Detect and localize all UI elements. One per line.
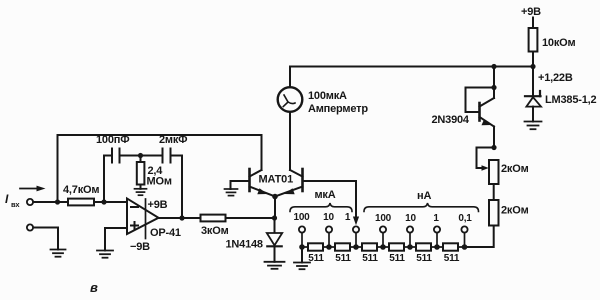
transistor Q3 2N3904	[432, 98, 495, 127]
current direction arrow	[20, 186, 46, 192]
op-amp U1 OP-41	[127, 199, 181, 240]
trimmer R5 2кОм	[489, 160, 529, 184]
wire Q3 collector-base loop	[466, 88, 495, 113]
wire ladder left to ground	[301, 247, 303, 263]
wire R1 to node B	[94, 201, 127, 203]
node I junction dot	[491, 85, 496, 90]
svg-text:вх: вх	[11, 200, 20, 209]
svg-text:Амперметр: Амперметр	[308, 103, 368, 115]
resistor R4 10кОм	[529, 28, 576, 52]
ground G7	[294, 263, 310, 270]
input terminal 1	[27, 199, 33, 205]
node D junction dot	[179, 215, 184, 220]
wire R3 to node E	[226, 217, 275, 219]
resistor R2 2,4МОм	[137, 162, 172, 188]
range labels	[293, 212, 472, 224]
input terminal 2	[27, 224, 33, 230]
resistor R3 3кОм	[201, 215, 229, 237]
svg-text:100мкА: 100мкА	[308, 90, 347, 102]
svg-text:10: 10	[323, 212, 334, 223]
node E junction dot	[272, 215, 277, 220]
wire node G down to Q3	[493, 67, 495, 99]
wire +9В to R4	[532, 18, 534, 29]
svg-text:2N3904: 2N3904	[432, 114, 470, 126]
wire terminal1 to node A	[33, 201, 57, 203]
wire Q1 base to ground	[231, 181, 250, 189]
wire op-amp output	[159, 217, 201, 219]
svg-text:100: 100	[293, 212, 310, 223]
svg-text:511: 511	[416, 253, 432, 264]
wire node C to C2	[141, 155, 163, 157]
svg-text:100: 100	[375, 213, 392, 224]
svg-text:0,1: 0,1	[458, 213, 472, 224]
wire node H to VD1	[532, 67, 534, 97]
trimmer R5 wiper loop	[477, 148, 495, 169]
svg-text:+9В: +9В	[148, 199, 168, 211]
svg-text:2кОм: 2кОм	[501, 163, 529, 175]
ladder junction dots	[299, 244, 467, 250]
wire feedback top line	[58, 134, 262, 136]
node J junction dot	[491, 145, 496, 150]
transistor Q2 MAT01 right half	[275, 169, 303, 197]
wire terminal2 to ground	[33, 228, 58, 250]
wire node C to R2	[140, 156, 142, 163]
svg-text:в: в	[90, 280, 98, 295]
wire R2 to ground	[140, 185, 142, 189]
wire noninverting input to ground	[105, 228, 127, 251]
op-amp power pins +9В -9В	[130, 199, 168, 253]
node A junction dot	[55, 199, 60, 204]
svg-text:I: I	[5, 192, 9, 206]
wire node A to R1	[58, 201, 69, 203]
ground G5	[225, 189, 238, 196]
wire Q3 emitter down to node J	[493, 127, 495, 148]
wire R5 to R6	[493, 184, 495, 200]
terminal stubs to ladder	[302, 233, 465, 247]
resistor R1 4,7кОм	[63, 184, 99, 205]
svg-text:10: 10	[405, 213, 416, 224]
svg-text:511: 511	[362, 253, 378, 264]
node F emitter junction dot	[272, 194, 278, 200]
ground G1	[51, 250, 66, 257]
svg-text:4,7кОм: 4,7кОм	[63, 184, 99, 196]
range terminal circles	[299, 226, 468, 232]
capacitor C1 100пФ	[96, 134, 129, 163]
resistor R6 2кОм	[489, 200, 529, 226]
wire Q2 base to range wiper	[303, 181, 357, 218]
label ammeter	[308, 90, 368, 115]
brace мкА	[290, 203, 352, 212]
brace нА	[364, 203, 479, 212]
node Iвх input label	[5, 192, 20, 209]
svg-text:100пФ: 100пФ	[96, 134, 129, 146]
wire D1 to ground	[274, 246, 276, 261]
svg-text:10кОм: 10кОм	[542, 37, 575, 49]
node C junction dot	[138, 153, 143, 158]
svg-text:−9В: −9В	[130, 241, 150, 253]
node B junction dot	[101, 199, 106, 204]
svg-text:+9В: +9В	[521, 6, 541, 18]
wire C2 down to node D	[171, 156, 183, 219]
wire R6 down to ladder	[465, 226, 494, 248]
svg-text:+1,22В: +1,22В	[538, 72, 573, 84]
svg-text:LM385-1,2: LM385-1,2	[545, 94, 596, 106]
ladder resistors 511 x6	[302, 243, 465, 264]
svg-text:нА: нА	[417, 190, 431, 202]
zener VD1 LM385-1,2	[525, 91, 596, 107]
wire feedback down to Q1 collector	[261, 135, 263, 170]
svg-text:МОм: МОм	[147, 176, 172, 188]
wire VD1 to ground	[532, 107, 534, 122]
svg-text:3кОм: 3кОм	[201, 225, 229, 237]
svg-text:2мкФ: 2мкФ	[159, 134, 187, 146]
wire node E down to D1	[274, 218, 276, 233]
wire Q2 collector to ammeter	[289, 112, 291, 170]
svg-text:511: 511	[389, 253, 405, 264]
svg-text:мкА: мкА	[315, 189, 336, 201]
wire C1 to node C	[120, 155, 141, 157]
diode D1 1N4148	[226, 233, 283, 251]
svg-text:ОР-41: ОР-41	[150, 227, 181, 239]
svg-text:1: 1	[433, 213, 439, 224]
wiper arrowhead at 1 мкА terminal	[353, 217, 359, 226]
ammeter M1	[278, 87, 303, 112]
svg-text:511: 511	[335, 253, 351, 264]
wire R4 to node H	[532, 52, 534, 67]
svg-text:1: 1	[345, 212, 351, 223]
ground G2	[135, 189, 147, 195]
svg-text:511: 511	[444, 253, 460, 264]
wire node F to node E	[274, 197, 276, 219]
node G junction dot	[491, 64, 496, 69]
transistor Q1 MAT01 left half	[250, 169, 276, 197]
wire node B up to C1	[104, 156, 112, 203]
ground G4	[265, 262, 285, 269]
svg-text:МАТ01: МАТ01	[259, 174, 294, 186]
wire ammeter top to rail	[290, 67, 533, 88]
svg-text:2кОм: 2кОм	[501, 205, 529, 217]
wire feedback left vertical	[57, 135, 59, 202]
svg-text:1N4148: 1N4148	[226, 239, 263, 251]
ground G6	[525, 122, 542, 130]
capacitor C2 2мкФ	[159, 134, 187, 163]
node H junction dot	[530, 64, 535, 69]
ground G3	[97, 251, 113, 258]
